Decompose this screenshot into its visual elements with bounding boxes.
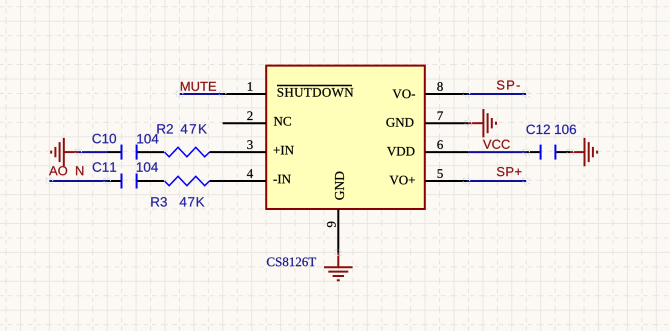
net label VCC [483, 140, 510, 149]
pin 4 -IN [223, 180, 266, 182]
wire C10 to ground [78, 151, 107, 153]
pin 7 name GND [386, 118, 413, 127]
ground GND (left of C10) [51, 138, 78, 166]
pin 2 number [247, 111, 252, 120]
capacitor C11 [107, 174, 164, 189]
pin 8 name VO- [393, 89, 415, 98]
ground GND (pin 7) [468, 109, 496, 137]
wire SP+ net [467, 180, 527, 182]
pin 2 name NC [274, 117, 291, 126]
resistor R2 [165, 147, 223, 156]
net label SP- [497, 80, 520, 89]
pin 6 VDD [425, 151, 468, 153]
pin 6 number [437, 140, 443, 149]
pin 1 name SHUTDOWN [278, 88, 354, 97]
pin 1 number [248, 82, 253, 91]
pin 9 number [327, 222, 336, 228]
pin 3 name +IN [274, 146, 294, 155]
designator R3 [151, 197, 167, 207]
value 47K (R3) [180, 197, 205, 206]
net label SP+ [497, 167, 522, 176]
value 47K (R2) [181, 124, 207, 133]
pin 5 VO+ [425, 180, 468, 182]
designator R2 [157, 124, 172, 133]
designator C12 [526, 125, 549, 135]
capacitor C12 [526, 145, 570, 160]
pin 8 VO- [425, 93, 468, 95]
pin 4 number [247, 169, 253, 178]
pin 5 name VO+ [390, 176, 415, 185]
pin 6 name VDD [387, 147, 415, 156]
net label AO N [49, 166, 83, 175]
value CS8126T [267, 257, 316, 266]
wire MUTE net [180, 93, 223, 95]
pin 7 number [438, 111, 443, 120]
net label MUTE [181, 82, 216, 91]
resistor R3 [165, 176, 223, 185]
ground GND (right of C12) [570, 138, 597, 166]
pin 5 number [438, 169, 443, 178]
wire VCC net [468, 151, 526, 153]
SHUTDOWN overline [277, 85, 352, 87]
value 106 (C12) [555, 125, 576, 135]
pin 8 number [437, 82, 443, 91]
pin 9 name GND (rotated) [335, 172, 344, 200]
value 104 (C11) [137, 162, 158, 172]
capacitor C10 [107, 145, 164, 160]
designator C11 [93, 162, 116, 172]
pin 2 NC [223, 122, 266, 124]
junction grip marks [46, 91, 573, 255]
value 104 (C10) [137, 134, 158, 144]
ground GND (pin 9 bottom) [324, 253, 353, 281]
pin 9 GND (bottom) [337, 209, 339, 253]
pin 3 number [247, 140, 252, 149]
pin 3 +IN [223, 151, 266, 153]
pin 7 GND [425, 122, 468, 124]
pin 4 name -IN [273, 175, 290, 184]
wire AO N net [49, 180, 107, 182]
wire SP- net [467, 93, 527, 95]
op-amp U1 CS8126T body [266, 66, 425, 209]
designator C10 [92, 134, 116, 144]
pin 1 SHUTDOWN [223, 93, 266, 95]
